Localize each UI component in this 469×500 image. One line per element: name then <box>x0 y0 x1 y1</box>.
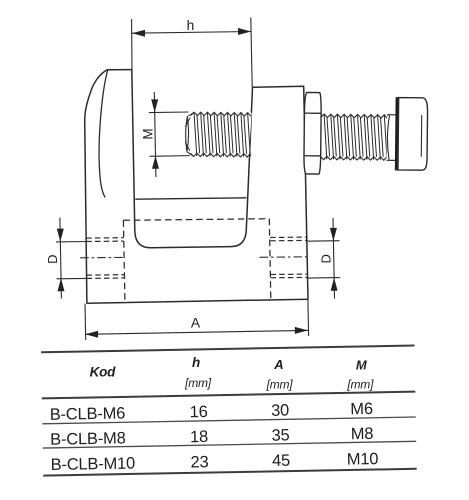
dimension h arrow left <box>132 30 145 37</box>
dimension D-right arrow top (points down) <box>330 228 337 241</box>
dimension A arrow right <box>295 327 308 334</box>
hex nut (side view) <box>304 92 322 174</box>
bolt head bearing face (thick bar) <box>395 97 399 170</box>
hidden slot left wall (dashed) <box>123 220 125 300</box>
threads left segment <box>191 112 251 116</box>
hidden hole upper edges right (double dashed) <box>270 236 306 238</box>
dimension D-left line <box>60 218 62 299</box>
table bottom rule <box>43 469 416 476</box>
svg-text:45: 45 <box>272 452 290 470</box>
table row rule 2 <box>43 441 416 448</box>
hidden hole upper edges left (double dashed) <box>86 237 123 239</box>
hidden slot right wall (dashed) <box>269 219 271 299</box>
bolt threaded rod right segment (white fill) <box>320 114 387 160</box>
svg-text:D: D <box>318 254 333 263</box>
svg-text:M8: M8 <box>351 425 374 443</box>
svg-text:M: M <box>140 128 155 139</box>
dimension M line <box>154 92 156 177</box>
svg-text:18: 18 <box>190 428 208 446</box>
svg-text:M6: M6 <box>350 400 373 418</box>
dimension A extension line left <box>84 304 87 340</box>
dimension M extension line bottom <box>150 155 197 158</box>
svg-text:Kod: Kod <box>90 365 117 380</box>
svg-text:h: h <box>192 355 200 370</box>
table row rule 1 <box>42 417 415 424</box>
hidden slot top edge (dashed) <box>123 219 269 221</box>
dimension M arrow bottom (points up) <box>152 156 159 169</box>
dimension h line <box>132 32 251 34</box>
dimension A arrow left <box>85 331 98 338</box>
dimension D-left arrow top (points down) <box>57 229 64 242</box>
hidden hole lower edges left (double dashed) <box>87 274 125 276</box>
svg-text:B-CLB-M8: B-CLB-M8 <box>50 429 126 448</box>
dimension D-right line <box>333 218 335 299</box>
dimension D-left extension line bottom <box>57 277 87 279</box>
dimension h arrow right <box>238 28 251 35</box>
bolt threaded rod left segment (white fill) <box>190 112 252 157</box>
svg-text:[mm]: [mm] <box>184 376 212 390</box>
dimension A extension line right <box>307 300 310 336</box>
nut facet lines <box>304 112 321 114</box>
hole centerline right (dash-dot) <box>260 256 311 259</box>
svg-text:h: h <box>187 18 195 33</box>
bolt head facet line <box>420 115 422 157</box>
hidden hole lower edges right (double dashed) <box>271 273 307 275</box>
svg-text:M10: M10 <box>347 450 379 469</box>
svg-text:M: M <box>356 358 368 373</box>
bolt tip chamfer cone <box>185 117 188 152</box>
thread runout curve <box>387 115 389 159</box>
svg-text:35: 35 <box>271 426 289 444</box>
left jaw inner profile line <box>99 71 108 198</box>
dimension h extension line left <box>131 19 133 70</box>
dimension M arrow top (points down) <box>151 99 158 112</box>
svg-text:[mm]: [mm] <box>266 377 294 391</box>
throat step line <box>135 198 246 199</box>
clamp body outline <box>85 70 308 304</box>
svg-text:D: D <box>45 255 60 264</box>
table header rule <box>42 392 415 399</box>
table top rule <box>41 346 414 353</box>
svg-text:A: A <box>191 316 201 331</box>
svg-text:[mm]: [mm] <box>346 378 374 392</box>
dimension A line <box>85 330 308 334</box>
dimension D-right extension line top <box>306 240 339 243</box>
dimension h extension line right <box>251 18 252 88</box>
dimension D-right arrow bottom (points up) <box>331 278 338 291</box>
svg-text:16: 16 <box>189 403 207 421</box>
svg-text:B-CLB-M10: B-CLB-M10 <box>50 455 135 475</box>
dimension D-left extension line top <box>56 241 86 243</box>
shank between threads and head <box>387 115 396 161</box>
hole centerline left (dash-dot) <box>80 256 124 258</box>
dimension D-left arrow bottom (points up) <box>58 278 65 291</box>
bolt head outline <box>398 98 428 171</box>
svg-text:A: A <box>273 357 283 372</box>
svg-text:23: 23 <box>190 453 208 471</box>
dimension M extension line top <box>149 111 189 114</box>
svg-text:B-CLB-M6: B-CLB-M6 <box>50 404 126 423</box>
threads right segment <box>321 114 387 118</box>
dimension D-right extension line bottom <box>307 277 340 280</box>
svg-text:30: 30 <box>271 402 289 420</box>
